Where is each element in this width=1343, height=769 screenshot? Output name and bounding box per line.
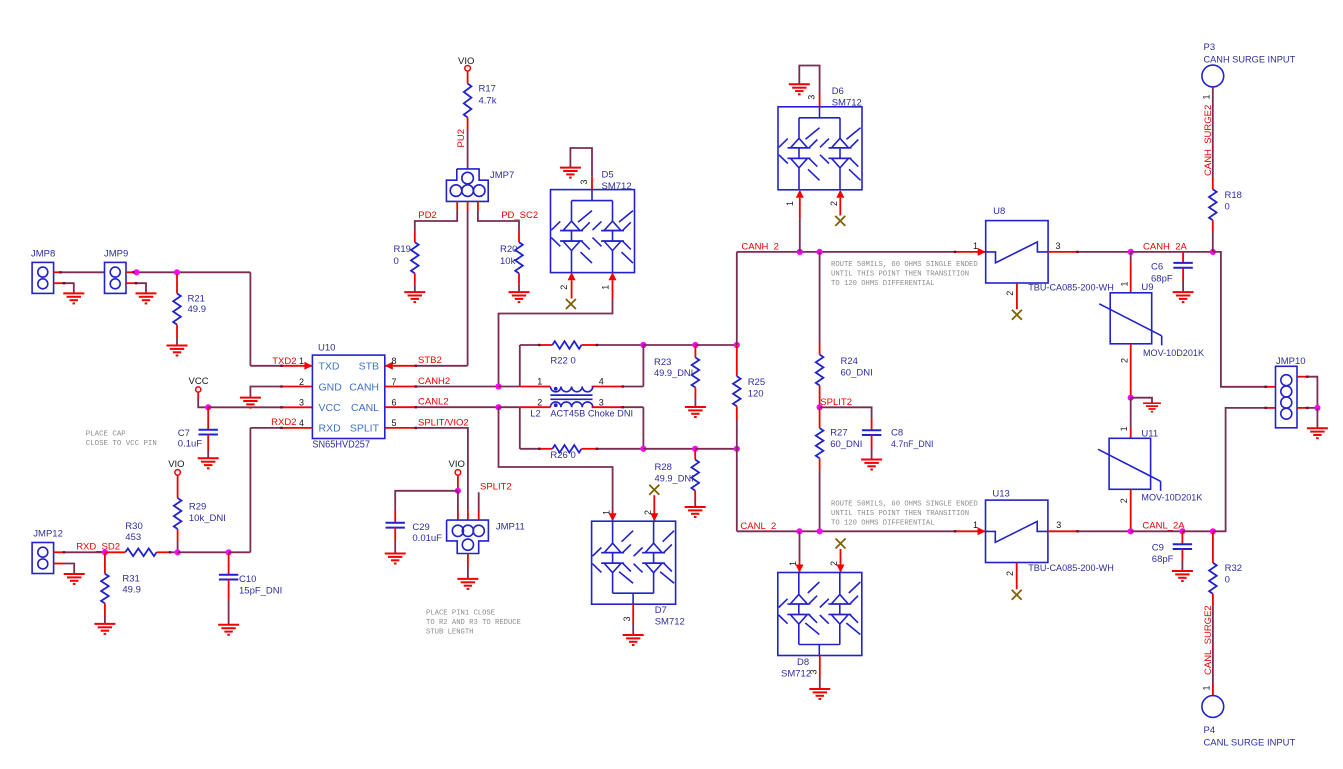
wire P3 to R18 net CANH_SURGE2 xyxy=(1212,87,1214,178)
resistor R27 xyxy=(816,428,824,458)
node junction R21 top xyxy=(174,269,180,275)
varistor U11 MOV-10D201K xyxy=(1109,438,1151,489)
svg-text:49.9_DNI: 49.9_DNI xyxy=(654,368,693,379)
svg-text:CANL2: CANL2 xyxy=(418,397,449,408)
svg-text:2: 2 xyxy=(1005,291,1015,296)
wire R29 junction to C10 xyxy=(178,551,229,553)
resistor R26 xyxy=(552,445,581,453)
svg-text:L2: L2 xyxy=(530,408,541,419)
wire CANH_2 row xyxy=(737,251,955,253)
svg-text:1: 1 xyxy=(602,510,612,515)
svg-text:2: 2 xyxy=(643,510,653,515)
wire U10 pin5 SPLIT/VIO2 xyxy=(385,427,416,429)
node junction VCC/C7 xyxy=(205,404,211,410)
svg-text:R31: R31 xyxy=(122,573,139,584)
svg-text:U9: U9 xyxy=(1141,282,1153,293)
wire R29 bottom stub xyxy=(177,529,179,541)
wire C6 bottom to ground xyxy=(1182,268,1184,281)
svg-text:PLACE CAP: PLACE CAP xyxy=(86,431,126,439)
node junction R23 top xyxy=(692,342,698,348)
svg-text:PLACE PIN1 CLOSE: PLACE PIN1 CLOSE xyxy=(426,610,495,618)
tbu U8 xyxy=(986,221,1048,283)
wire CANL2 to L2 pin2 xyxy=(499,406,520,408)
node junction R25 bottom xyxy=(734,446,740,452)
svg-text:120: 120 xyxy=(748,388,764,399)
wire U8 pin2 to no-connect xyxy=(1016,283,1018,309)
wire D5 pin1 to CANH2 xyxy=(612,280,614,299)
resistor R31 xyxy=(101,574,109,604)
svg-text:JMP8: JMP8 xyxy=(31,249,55,260)
pin arrow U8 pin1 xyxy=(978,248,986,256)
svg-text:4: 4 xyxy=(599,377,604,387)
wire VCC junction to U10 pin3 xyxy=(208,406,281,408)
node junction R18 bottom xyxy=(1210,249,1216,255)
svg-text:C6: C6 xyxy=(1151,261,1163,272)
svg-text:PD2: PD2 xyxy=(418,210,436,221)
wire JMP11 middle pin xyxy=(467,510,469,520)
resistor R29 xyxy=(174,498,182,529)
svg-text:2: 2 xyxy=(299,377,304,387)
pin arrow D6 pin2 xyxy=(836,190,844,198)
pin arrow U10 TXD xyxy=(304,362,312,370)
wire JMP10 right pin top xyxy=(1297,376,1307,378)
node junction D8 pin1 xyxy=(796,528,802,534)
wire VIO to R29 xyxy=(177,475,179,498)
resistor R32 xyxy=(1209,563,1217,594)
ground JMP12 xyxy=(64,574,85,584)
pin arrow U10 STB xyxy=(385,362,393,370)
wire D7 pin3 to ground xyxy=(632,604,634,622)
svg-text:ROUTE 50MILS, 60 OHMS SINGLE E: ROUTE 50MILS, 60 OHMS SINGLE ENDED xyxy=(831,261,978,269)
node junction VIO/C29 xyxy=(455,488,461,494)
ic U10 SN65HVD257 box xyxy=(312,355,384,438)
wire R30 right stub xyxy=(157,551,170,553)
ground C29 xyxy=(385,554,406,564)
connector JMP12 xyxy=(32,543,54,574)
wire R21 bottom stub xyxy=(176,325,178,338)
wire R19 to ground xyxy=(414,273,416,284)
svg-text:PU2: PU2 xyxy=(456,129,467,147)
wire junction to C29 xyxy=(395,491,458,511)
ground D8 pin3 xyxy=(809,689,830,699)
power P3 port xyxy=(1202,65,1224,87)
wire TXD2 horizontal to U10 pin1 xyxy=(250,365,281,367)
ground R19 xyxy=(404,292,425,302)
wire U9 junction to U11 pin1 xyxy=(1130,398,1132,428)
wire CANH_2A to C6 and R18 xyxy=(1131,251,1213,253)
wire CANL_2 row xyxy=(737,530,955,532)
wire R27 bottom stub xyxy=(819,458,821,470)
node junction R22 right xyxy=(640,342,646,348)
capacitor C7 xyxy=(199,430,218,435)
svg-text:1: 1 xyxy=(1119,426,1129,431)
svg-text:6: 6 xyxy=(392,398,397,408)
resistor R21 xyxy=(173,293,181,324)
svg-text:RXD2: RXD2 xyxy=(271,417,296,428)
svg-text:68pF: 68pF xyxy=(1151,273,1173,284)
svg-text:2: 2 xyxy=(559,285,569,290)
svg-text:C29: C29 xyxy=(412,522,429,533)
wire R21 top stub xyxy=(176,274,178,293)
svg-text:CLOSE TO VCC PIN: CLOSE TO VCC PIN xyxy=(86,440,157,448)
resistor R19 xyxy=(411,242,419,273)
wire R31 bottom to ground xyxy=(104,603,106,616)
ground D7 pin3 xyxy=(623,635,644,645)
wire SPLIT2 stub to JMP11 right pin xyxy=(478,492,480,510)
wire CANH_2 riser xyxy=(736,252,738,345)
svg-text:SPLIT2: SPLIT2 xyxy=(480,482,512,493)
svg-text:2: 2 xyxy=(1119,358,1129,363)
power VCC symbol xyxy=(196,387,201,392)
node junction U9 pin2 gnd xyxy=(1128,395,1134,401)
wire R17 to JMP7 net PU2 xyxy=(467,118,469,131)
wire JMP12 pin2 to ground xyxy=(54,563,64,565)
svg-text:P4: P4 xyxy=(1204,725,1216,736)
wire U10 pin2 GND xyxy=(282,386,313,388)
svg-text:49.9_DNI: 49.9_DNI xyxy=(655,473,694,484)
wire U9 pin2 to ground xyxy=(1131,398,1152,404)
svg-text:8: 8 xyxy=(392,356,397,366)
svg-text:CANL_2A: CANL_2A xyxy=(1142,520,1185,531)
connector JMP11 xyxy=(447,520,489,553)
svg-text:CANL_2: CANL_2 xyxy=(740,521,776,532)
wire JMP9 pin2 to ground xyxy=(126,282,136,284)
ground U9 xyxy=(1143,403,1161,412)
svg-text:VIO: VIO xyxy=(458,56,474,67)
svg-text:PD_SC2: PD_SC2 xyxy=(501,210,538,221)
svg-text:R32: R32 xyxy=(1225,563,1242,574)
svg-text:3: 3 xyxy=(299,398,304,408)
svg-text:ACT45B Choke DNI: ACT45B Choke DNI xyxy=(550,408,633,419)
capacitor C10 xyxy=(219,575,238,580)
svg-text:15pF_DNI: 15pF_DNI xyxy=(239,586,282,597)
pin arrow D7 pin2 xyxy=(650,513,658,521)
no-connect X U13 pin2 xyxy=(1012,590,1022,600)
wire JMP7 left pin to R19 net PD2 xyxy=(456,201,458,210)
wire C10 junction to riser xyxy=(229,551,251,553)
no-connect X D6 pin2 xyxy=(835,216,845,226)
svg-text:D7: D7 xyxy=(655,605,667,616)
wire R22 row to R25 top xyxy=(695,344,736,346)
wire bracket right pin4 xyxy=(642,345,644,387)
node junction C9 top xyxy=(1179,528,1185,534)
svg-text:2: 2 xyxy=(829,201,839,206)
resistor R30 xyxy=(125,549,156,557)
wire CANH2 to L2 pin1 xyxy=(499,386,520,388)
svg-text:SPLIT/VIO2: SPLIT/VIO2 xyxy=(418,417,469,428)
svg-text:1: 1 xyxy=(537,377,542,387)
node junction U9 pin1 xyxy=(1128,249,1134,255)
svg-text:VIO: VIO xyxy=(168,459,184,470)
pin arrow D5 pin2 xyxy=(568,272,576,280)
wire CANL_2A corner to JMP10 xyxy=(1213,408,1266,531)
wire bracket left pin2 down xyxy=(519,407,521,449)
svg-text:CANL SURGE INPUT: CANL SURGE INPUT xyxy=(1204,738,1296,749)
svg-text:STUB LENGTH: STUB LENGTH xyxy=(426,629,473,637)
wire JMP8 pin2 to ground xyxy=(54,282,62,284)
wire D8 pin3 to ground xyxy=(819,656,821,678)
wire R22 row to R23 xyxy=(643,344,695,346)
capacitor C9 xyxy=(1173,544,1192,549)
wire R23 bottom to ground xyxy=(694,388,696,399)
resistor R18 xyxy=(1209,189,1217,220)
connector JMP8 xyxy=(32,262,54,293)
svg-text:D6: D6 xyxy=(832,86,844,97)
node junction R26 right xyxy=(640,446,646,452)
wire C10 bottom to ground xyxy=(228,580,230,601)
svg-text:SM712: SM712 xyxy=(832,97,862,108)
svg-text:0: 0 xyxy=(1225,202,1230,213)
svg-text:R30: R30 xyxy=(125,521,142,532)
wire R28 top stub xyxy=(694,450,696,460)
node junction JMP10 right xyxy=(1314,405,1320,411)
wire D6 pin2 to no-connect xyxy=(839,198,841,216)
svg-text:TBU-CA085-200-WH: TBU-CA085-200-WH xyxy=(1028,283,1114,294)
connector JMP10 xyxy=(1276,366,1298,428)
svg-text:U11: U11 xyxy=(1141,429,1158,440)
ground JMP11 xyxy=(457,579,478,589)
ground U10 GND pin xyxy=(240,398,261,408)
svg-text:U10: U10 xyxy=(318,342,335,353)
wire RXD2 vertical xyxy=(249,428,251,552)
wire U11 pin2 xyxy=(1130,489,1132,531)
svg-text:MOV-10D201K: MOV-10D201K xyxy=(1143,348,1205,359)
node junction R32 top xyxy=(1210,528,1216,534)
svg-text:C9: C9 xyxy=(1152,542,1164,553)
node junction SPLIT2 xyxy=(817,404,823,410)
wire R27 top stub xyxy=(819,408,821,428)
svg-text:P3: P3 xyxy=(1204,42,1216,53)
wire C7 top stub xyxy=(207,407,209,429)
svg-text:453: 453 xyxy=(125,532,141,543)
wire C8 top stub xyxy=(871,418,873,430)
wire C10 top stub xyxy=(228,553,230,574)
node junction U11 pin2 xyxy=(1128,528,1134,534)
wire D7 pin1 from CANL2 xyxy=(499,407,613,511)
svg-text:7: 7 xyxy=(392,377,397,387)
svg-text:1: 1 xyxy=(973,520,978,530)
wire CANL_2 riser xyxy=(736,449,738,532)
svg-text:TXD2: TXD2 xyxy=(272,356,296,367)
wire C29 top stub xyxy=(394,511,396,523)
ground JMP8 xyxy=(63,293,84,303)
wire VIO to R17 xyxy=(467,71,469,83)
svg-text:JMP9: JMP9 xyxy=(104,249,128,260)
svg-text:UNTIL THIS POINT THEN TRANSITI: UNTIL THIS POINT THEN TRANSITION xyxy=(831,271,969,279)
svg-text:R29: R29 xyxy=(189,502,206,513)
svg-text:TBU-CA085-200-WH: TBU-CA085-200-WH xyxy=(1028,563,1114,574)
svg-text:1: 1 xyxy=(785,201,795,206)
wire R25 bottom stub xyxy=(736,406,738,420)
wire C9 bottom to ground xyxy=(1181,549,1183,561)
node junction R29 bottom xyxy=(175,549,181,555)
pin arrow D5 pin1 xyxy=(609,272,617,280)
ground D6 pin3 xyxy=(789,84,810,94)
svg-text:3: 3 xyxy=(1056,241,1061,251)
ground JMP10 xyxy=(1307,428,1328,438)
no-connect X D5 pin2 xyxy=(566,299,576,309)
resistor R28 xyxy=(691,460,699,491)
wire JMP8 pin1 to JMP9 xyxy=(54,271,61,273)
wire D8 pin2 from no-connect xyxy=(840,549,842,573)
svg-text:JMP10: JMP10 xyxy=(1276,356,1306,367)
svg-text:60_DNI: 60_DNI xyxy=(841,367,873,378)
svg-text:3: 3 xyxy=(1056,520,1061,530)
svg-text:4: 4 xyxy=(299,418,304,428)
svg-text:CANH2: CANH2 xyxy=(418,376,450,387)
wire C29 bottom to ground xyxy=(394,528,396,541)
svg-text:3: 3 xyxy=(808,669,818,674)
svg-text:3: 3 xyxy=(807,95,817,100)
node junction R31 top xyxy=(102,549,108,555)
svg-text:MOV-10D201K: MOV-10D201K xyxy=(1141,492,1203,503)
pin arrow D7 pin1 xyxy=(609,513,617,521)
node junction CANH2 xyxy=(495,383,501,389)
wire U9 pin2 xyxy=(1130,344,1132,398)
svg-text:VCC: VCC xyxy=(319,402,342,414)
svg-text:5: 5 xyxy=(392,418,397,428)
svg-text:UNTIL THIS POINT THEN TRANSITI: UNTIL THIS POINT THEN TRANSITION xyxy=(831,510,969,518)
svg-text:TO 120 OHMS DIFFERENTIAL: TO 120 OHMS DIFFERENTIAL xyxy=(831,280,935,288)
svg-text:JMP12: JMP12 xyxy=(33,529,63,540)
wire D5 pin3 to ground xyxy=(591,177,593,190)
capacitor C8 xyxy=(862,430,881,435)
wire U8 pin3 CANH_2A xyxy=(1048,251,1077,253)
wire U10 pin7 CANH2 xyxy=(385,386,416,388)
wire U10 pin4 RXD2 xyxy=(282,427,313,429)
svg-text:CANH_2: CANH_2 xyxy=(741,241,779,252)
capacitor C6 xyxy=(1173,263,1192,268)
svg-text:R20: R20 xyxy=(500,244,517,255)
svg-text:3: 3 xyxy=(622,616,632,621)
svg-text:R23: R23 xyxy=(654,357,671,368)
svg-text:0.1uF: 0.1uF xyxy=(178,438,202,449)
svg-text:RXD: RXD xyxy=(319,423,342,435)
wire C8 bottom to ground xyxy=(871,435,873,449)
svg-text:1: 1 xyxy=(1201,685,1211,690)
no-connect X D8 pin2 xyxy=(836,539,846,549)
wire U9 pin1 xyxy=(1130,252,1132,262)
svg-text:STB: STB xyxy=(359,361,379,373)
wire CANL_2A to C9 xyxy=(1131,530,1183,532)
wire bracket left R22 xyxy=(519,345,521,387)
svg-text:D5: D5 xyxy=(602,170,614,181)
wire R22 left stub xyxy=(520,344,540,346)
no-connect X D7 pin2 xyxy=(649,485,659,495)
svg-text:2: 2 xyxy=(1119,498,1129,503)
wire R26 row to R28 xyxy=(643,448,695,450)
svg-text:R28: R28 xyxy=(655,462,672,473)
svg-text:D8: D8 xyxy=(797,657,809,668)
svg-text:2: 2 xyxy=(537,397,542,407)
wire VCC to junction xyxy=(197,392,199,398)
svg-text:1: 1 xyxy=(788,561,798,566)
node junction CANL2 xyxy=(495,404,501,410)
capacitor C29 xyxy=(386,523,405,528)
svg-text:VIO: VIO xyxy=(449,459,465,470)
svg-text:60_DNI: 60_DNI xyxy=(830,439,862,450)
svg-text:2: 2 xyxy=(1005,571,1015,576)
ground D5 pin3 xyxy=(560,168,581,178)
ground R23 xyxy=(685,407,706,417)
wire R31 top stub xyxy=(104,553,106,573)
ground JMP9 xyxy=(136,293,157,303)
pin arrow D6 pin1 xyxy=(796,190,804,198)
svg-text:0.01uF: 0.01uF xyxy=(412,533,442,544)
wire VIO junction to JMP11 pin left xyxy=(457,491,459,510)
svg-text:TO 120 OHMS DIFFERENTIAL: TO 120 OHMS DIFFERENTIAL xyxy=(831,520,935,528)
wire JMP10 junction to ground xyxy=(1316,408,1318,428)
svg-text:TXD: TXD xyxy=(319,361,340,373)
ground C9 xyxy=(1172,571,1193,581)
wire R28 bottom to ground xyxy=(694,491,696,501)
svg-text:SM712: SM712 xyxy=(781,668,811,679)
svg-text:SN65HVD257: SN65HVD257 xyxy=(312,440,370,451)
svg-text:10k: 10k xyxy=(500,256,516,267)
wire U13 pin2 to no-connect xyxy=(1016,563,1018,590)
wire bracket right pin3 down xyxy=(642,407,644,449)
tvs diode D7 SM712 xyxy=(592,521,676,604)
wire D7 pin2 from no-connect xyxy=(653,495,655,521)
inductor L2 top winding xyxy=(550,387,592,392)
wire C6 top stub xyxy=(1182,252,1184,263)
svg-text:4.7k: 4.7k xyxy=(479,96,497,107)
svg-text:2: 2 xyxy=(829,561,839,566)
svg-text:R25: R25 xyxy=(748,377,765,388)
resistor R25 xyxy=(733,376,741,406)
svg-text:10k_DNI: 10k_DNI xyxy=(189,513,226,524)
svg-text:CANL: CANL xyxy=(351,402,379,414)
ground C7 xyxy=(198,458,219,468)
svg-text:RXD_SD2: RXD_SD2 xyxy=(76,542,120,553)
ground R31 xyxy=(94,624,115,634)
node junction JMP9 out xyxy=(133,269,139,275)
wire U13 pin3 CANL_2A xyxy=(1048,530,1078,532)
svg-text:R22 0: R22 0 xyxy=(550,355,575,366)
svg-text:CANH SURGE INPUT: CANH SURGE INPUT xyxy=(1204,55,1296,66)
svg-text:C8: C8 xyxy=(891,428,903,439)
svg-text:C10: C10 xyxy=(239,574,256,585)
wire end ticks xyxy=(59,271,61,273)
svg-text:3: 3 xyxy=(579,179,589,184)
tbu U13 xyxy=(986,500,1048,562)
svg-text:4.7nF_DNI: 4.7nF_DNI xyxy=(891,439,934,450)
wire JMP12 pin1 to RXD_SD2 xyxy=(54,551,64,553)
wire U10 pin8 STB2 xyxy=(385,365,416,367)
resistor R22 xyxy=(552,341,581,349)
wire R32 to P4 net CANL_SURGE2 xyxy=(1212,594,1214,606)
svg-text:1: 1 xyxy=(600,285,610,290)
svg-text:49.9: 49.9 xyxy=(188,304,207,315)
wire D6 pin1 down to CANH_2 xyxy=(799,198,801,219)
svg-text:0: 0 xyxy=(1225,575,1230,586)
svg-text:VCC: VCC xyxy=(189,376,209,387)
svg-text:SM712: SM712 xyxy=(602,181,632,192)
wire JMP7 middle pin to STB2 xyxy=(467,201,469,211)
node junction C10 top xyxy=(226,549,232,555)
wire R26 right stub xyxy=(582,448,598,450)
wire D8 pin1 from CANL_2 xyxy=(799,531,801,560)
svg-text:R24: R24 xyxy=(841,356,858,367)
wire R22 right stub xyxy=(582,344,598,346)
wire R25 top stub xyxy=(736,346,738,376)
svg-text:3: 3 xyxy=(599,397,604,407)
ground R21 xyxy=(167,346,188,356)
wire R26 left stub xyxy=(520,448,540,450)
wire D5 pin2 to no-connect xyxy=(571,280,573,298)
svg-text:R17: R17 xyxy=(479,84,496,95)
node junction R25 top xyxy=(734,342,740,348)
